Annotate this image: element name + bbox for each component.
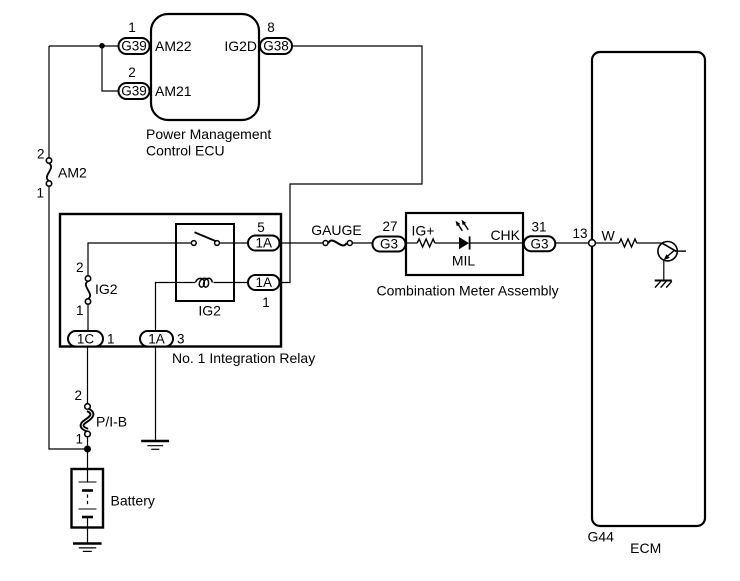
- wire fuse IG2 to 1C: [87, 304, 89, 331]
- svg-text:ECM: ECM: [630, 540, 661, 556]
- svg-text:MIL: MIL: [452, 253, 476, 269]
- svg-text:AM2: AM2: [58, 165, 87, 181]
- svg-text:G44: G44: [587, 529, 614, 545]
- svg-text:27: 27: [382, 219, 397, 234]
- svg-text:Power Management: Power Management: [146, 126, 271, 142]
- svg-text:Control ECU: Control ECU: [146, 143, 225, 159]
- svg-text:1: 1: [76, 303, 84, 318]
- connector G39 pin 2: [119, 65, 150, 99]
- svg-text:G3: G3: [530, 237, 548, 252]
- connector 1A pin 1: [248, 275, 280, 310]
- node: junction above battery: [84, 446, 91, 453]
- wire fusible link to battery: [87, 437, 89, 482]
- svg-text:G39: G39: [121, 39, 147, 54]
- svg-text:1A: 1A: [148, 332, 165, 347]
- svg-text:CHK: CHK: [490, 227, 520, 243]
- wire coil left to ground pin 1A 3: [156, 283, 196, 332]
- wire meter left: [406, 242, 418, 244]
- svg-text:G38: G38: [263, 39, 289, 54]
- svg-text:IG2: IG2: [95, 281, 118, 297]
- svg-text:1: 1: [262, 295, 270, 310]
- wire coil right to 1A pin 1: [214, 282, 249, 284]
- svg-text:3: 3: [177, 332, 185, 347]
- svg-text:Battery: Battery: [111, 493, 155, 509]
- fusible link P/I-B: [74, 388, 127, 447]
- wire from G39 pin 1 to left rail: [49, 45, 119, 47]
- svg-text:1C: 1C: [77, 332, 95, 347]
- svg-text:IG2: IG2: [198, 303, 221, 319]
- svg-text:AM22: AM22: [155, 38, 192, 54]
- relay coil: [195, 278, 212, 287]
- wire G3 pin 31 to ECM pin 13: [555, 242, 590, 244]
- fuse GAUGE: [311, 222, 362, 246]
- node: ECM pin 13: [572, 226, 595, 246]
- transistor Q1: [658, 242, 686, 261]
- svg-text:IG+: IG+: [412, 223, 435, 239]
- svg-text:No. 1 Integration Relay: No. 1 Integration Relay: [172, 350, 315, 366]
- fuse AM2: [36, 147, 87, 201]
- ECM box: [587, 52, 705, 556]
- ECU box: Power Management Control ECU: [146, 14, 271, 159]
- connector 1C pin 1: [68, 331, 115, 347]
- wire transistor emitter to ground: [663, 261, 665, 280]
- svg-text:13: 13: [572, 226, 587, 241]
- connector 1A pin 5: [248, 220, 280, 251]
- wire switch feed: [88, 243, 191, 276]
- fuse IG2: [76, 260, 118, 318]
- meter box: Combination Meter Assembly: [377, 213, 559, 299]
- connector G3 pin 27: [373, 219, 406, 252]
- wire left rail down to battery junction: [49, 186, 88, 449]
- svg-text:IG2D: IG2D: [224, 38, 257, 54]
- svg-text:5: 5: [257, 220, 265, 235]
- ground below relay: [141, 441, 169, 449]
- svg-text:1A: 1A: [255, 275, 272, 290]
- wire 1C to fusible link: [87, 347, 89, 405]
- svg-text:2: 2: [37, 147, 45, 162]
- wire resistor to LED: [435, 242, 459, 244]
- wire left rail top: [48, 46, 50, 158]
- wire pin 13 to resistor: [595, 242, 619, 244]
- wire branch to G39 pin 2: [102, 46, 119, 91]
- connector G3 pin 31: [524, 220, 556, 252]
- svg-text:2: 2: [74, 388, 82, 403]
- relay switch contacts: [191, 232, 219, 245]
- resistor in meter: [417, 239, 435, 247]
- wire switch to 1A pin 5: [220, 242, 248, 244]
- battery: [72, 469, 155, 528]
- svg-text:2: 2: [128, 65, 136, 80]
- svg-text:1: 1: [75, 432, 83, 447]
- relay inner box IG2: [176, 224, 234, 319]
- svg-text:G39: G39: [121, 84, 147, 99]
- wire LED to G3 pin 31: [471, 242, 524, 244]
- wire battery to ground: [87, 517, 89, 543]
- connector G39 pin 1: [119, 20, 150, 54]
- svg-text:31: 31: [531, 220, 546, 235]
- svg-text:1: 1: [107, 332, 115, 347]
- chassis ground in ECM: [655, 281, 672, 288]
- wire IG2D from G38 down to relay 1A pin 1: [280, 46, 423, 283]
- wire 1A pin 3 to ground: [155, 347, 157, 441]
- ground below battery: [73, 544, 102, 552]
- svg-text:G3: G3: [380, 237, 398, 252]
- svg-text:1A: 1A: [255, 236, 272, 251]
- svg-text:W: W: [602, 228, 616, 244]
- node: junction dot: [99, 43, 105, 49]
- svg-text:GAUGE: GAUGE: [311, 222, 362, 238]
- relay box: No. 1 Integration Relay: [60, 214, 315, 366]
- svg-text:1: 1: [36, 186, 44, 201]
- LED MIL: [452, 220, 476, 269]
- connector 1A pin 3: [140, 331, 185, 347]
- connector G38 pin 8: [260, 20, 292, 54]
- svg-text:Combination Meter Assembly: Combination Meter Assembly: [377, 283, 559, 299]
- svg-text:P/I-B: P/I-B: [96, 414, 127, 430]
- svg-text:AM21: AM21: [155, 83, 192, 99]
- svg-text:2: 2: [76, 260, 84, 275]
- wire resistor to transistor: [637, 242, 662, 244]
- svg-text:1: 1: [128, 20, 136, 35]
- svg-text:8: 8: [267, 20, 275, 35]
- resistor in ECM: [619, 239, 637, 247]
- wire relay 1A pin 5 to fuse GAUGE: [280, 242, 323, 244]
- wire fuse GAUGE to G3 pin 27: [352, 242, 372, 244]
